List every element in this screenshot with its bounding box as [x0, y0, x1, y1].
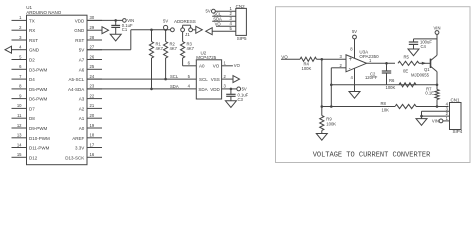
- jumper J1 pin A: [171, 28, 175, 32]
- wire Q1 collector to R7: [436, 72, 438, 90]
- svg-text:8: 8: [350, 46, 353, 51]
- jumper J1 shunt bracket: [182, 25, 184, 28]
- svg-text:R5: R5: [404, 55, 410, 60]
- jumper J1 pin B: [181, 28, 185, 32]
- ground below op-amp: [349, 92, 360, 99]
- svg-text:24: 24: [90, 74, 95, 79]
- U1 right pin 22 (A3): [87, 98, 102, 100]
- U1 left pin 11 (D8): [12, 117, 27, 119]
- svg-text:D7: D7: [29, 106, 35, 111]
- svg-text:Q1: Q1: [424, 67, 430, 72]
- svg-text:22: 22: [90, 93, 95, 98]
- node VDD/C3 junction: [230, 88, 233, 91]
- svg-text:19: 19: [90, 123, 95, 128]
- svg-text:4K7: 4K7: [170, 46, 178, 51]
- svg-text:CN1: CN1: [451, 98, 460, 103]
- svg-text:120PF: 120PF: [365, 75, 378, 80]
- node R6/collector junction: [436, 84, 439, 87]
- svg-text:VIN: VIN: [432, 119, 439, 124]
- svg-text:100K: 100K: [326, 121, 336, 126]
- U1 left pin 7 (D4): [12, 78, 27, 80]
- svg-text:D11-PWM: D11-PWM: [29, 146, 50, 151]
- svg-text:A7: A7: [79, 58, 85, 63]
- U1 right pin 23 (A4-SDA): [87, 88, 102, 90]
- resistor R8 10K: [395, 104, 416, 108]
- resistor R7 0.1E: [435, 90, 439, 100]
- svg-text:A2: A2: [79, 106, 85, 111]
- svg-text:2: 2: [224, 74, 227, 79]
- voltage-to-current converter enclosure box: [276, 7, 471, 163]
- svg-text:TX: TX: [29, 18, 35, 23]
- U3A pin 4 wire to ground: [354, 68, 356, 91]
- svg-text:A3: A3: [79, 97, 85, 102]
- svg-text:D2: D2: [29, 58, 35, 63]
- svg-text:D10-PWM: D10-PWM: [29, 136, 50, 141]
- node R2/SCL junction: [164, 78, 167, 81]
- terminal 5V above op-amp: [353, 35, 357, 39]
- svg-text:2: 2: [19, 25, 22, 30]
- U1 right pin 16 (D13-SCK): [87, 156, 102, 158]
- op-amp U3A OPA2350: [346, 55, 367, 72]
- wire SCL (U1 pin 24 to U2 pin 5): [87, 78, 196, 80]
- wire 5V rail: [87, 49, 131, 51]
- svg-text:10K: 10K: [382, 107, 390, 112]
- U1 left pin 4 (GND): [12, 49, 27, 51]
- resistor R2 4K7: [165, 30, 167, 42]
- svg-text:4K7: 4K7: [156, 46, 164, 51]
- U2 pin 2 VSS: [222, 78, 233, 80]
- wire R9 to ground: [321, 131, 323, 134]
- svg-text:VO: VO: [234, 63, 241, 68]
- svg-text:5V: 5V: [242, 87, 247, 92]
- node CN1 ground junction: [420, 115, 423, 118]
- svg-text:4: 4: [19, 45, 22, 50]
- svg-text:VIN: VIN: [434, 26, 441, 31]
- svg-text:D9-PWM: D9-PWM: [29, 126, 47, 131]
- ground arrow at U2 VSS: [233, 76, 240, 83]
- U1 left pin 8 (D5-PWM): [12, 88, 27, 90]
- svg-text:10: 10: [17, 103, 22, 108]
- node R1 tap: [150, 29, 153, 32]
- ground arrow to CN2 pin 5: [206, 28, 213, 35]
- resistor R4 100K: [300, 57, 317, 61]
- svg-text:11: 11: [17, 113, 22, 118]
- svg-text:3: 3: [19, 35, 22, 40]
- svg-text:VDD: VDD: [210, 87, 220, 92]
- svg-text:27: 27: [90, 45, 95, 50]
- svg-text:3: 3: [224, 84, 227, 89]
- wire feedback row: [331, 84, 437, 86]
- terminal 5V on rail: [164, 25, 168, 29]
- ground arrow right of J1: [196, 26, 203, 33]
- svg-text:1: 1: [224, 61, 227, 66]
- U3A pin 2 wire (-in): [331, 67, 346, 69]
- U1 left pin 1 (TX): [12, 19, 27, 21]
- node R1/SDA junction: [150, 88, 153, 91]
- node R4/R9 junction: [321, 58, 324, 61]
- connector CN1 body: [450, 103, 462, 130]
- svg-text:5V: 5V: [79, 48, 85, 53]
- svg-text:4: 4: [350, 75, 353, 80]
- svg-text:VOLTAGE TO CURRENT CONVERTER: VOLTAGE TO CURRENT CONVERTER: [313, 151, 431, 159]
- svg-text:6: 6: [19, 64, 22, 69]
- svg-text:17: 17: [90, 142, 95, 147]
- U1 left pin 10 (D7): [12, 107, 27, 109]
- svg-text:16: 16: [90, 152, 95, 157]
- terminal 5V at U2 VDD: [237, 87, 241, 91]
- svg-text:VSS: VSS: [211, 77, 220, 82]
- svg-text:28: 28: [90, 35, 95, 40]
- svg-text:14: 14: [17, 142, 22, 147]
- CN1 pin 2 wire: [422, 115, 450, 117]
- wire VDD to VIN node: [87, 19, 123, 21]
- U1 left pin 3 (RST): [12, 39, 27, 41]
- svg-text:20: 20: [90, 113, 95, 118]
- svg-text:D13-SCK: D13-SCK: [65, 155, 84, 160]
- svg-text:29: 29: [90, 25, 95, 30]
- svg-text:A5-SCL: A5-SCL: [69, 77, 85, 82]
- svg-text:J1: J1: [185, 32, 190, 37]
- U1 right pin 27 (5V): [87, 49, 102, 51]
- ground below C4: [408, 49, 419, 56]
- svg-text:25: 25: [90, 64, 95, 69]
- svg-text:A1: A1: [79, 116, 85, 121]
- svg-text:A6: A6: [79, 67, 85, 72]
- wire R8 row left: [322, 106, 395, 108]
- svg-text:13: 13: [17, 133, 22, 138]
- CN1 pin 3 wire: [422, 110, 450, 112]
- svg-text:5: 5: [188, 74, 191, 79]
- svg-text:100K: 100K: [302, 66, 312, 71]
- jumper J1 pin C: [189, 28, 193, 32]
- svg-text:0.1E: 0.1E: [425, 91, 434, 96]
- svg-text:D8: D8: [29, 116, 35, 121]
- IC U1 ARDUINO NANO body: [27, 15, 88, 165]
- svg-text:D12: D12: [29, 155, 38, 160]
- svg-text:R8: R8: [381, 101, 387, 106]
- connector CN2 body: [236, 8, 247, 35]
- node output/C2 junction: [385, 62, 388, 65]
- ground below R9: [316, 134, 327, 141]
- resistor R6 100K: [399, 83, 416, 87]
- svg-text:GND: GND: [74, 28, 85, 33]
- node R9 junction: [321, 105, 324, 108]
- resistor R9 100K: [320, 116, 324, 131]
- U1 right pin 28 (RST): [87, 39, 102, 41]
- svg-text:9: 9: [19, 93, 22, 98]
- U1 right pin 24 (A5-SCL): [87, 78, 102, 80]
- wire R4 junction to R9: [321, 59, 323, 115]
- svg-text:R6: R6: [389, 78, 395, 83]
- svg-text:A0: A0: [79, 126, 85, 131]
- svg-text:VDD: VDD: [75, 18, 85, 23]
- svg-text:MCP4725: MCP4725: [196, 55, 217, 60]
- wire R2 to SCL: [165, 58, 167, 79]
- U2 pin 3 VDD: [222, 88, 237, 90]
- svg-text:21: 21: [90, 103, 95, 108]
- svg-text:RX: RX: [29, 28, 35, 33]
- svg-text:5: 5: [229, 26, 232, 31]
- U1 left pin 6 (D3-PWM): [12, 68, 27, 70]
- U1 left pin 2 (RX): [12, 29, 27, 31]
- wire R8 to CN1 pin 4: [416, 106, 449, 108]
- wire J1 to ground arrow: [193, 29, 196, 31]
- terminal VIN top: [435, 31, 439, 35]
- svg-text:2: 2: [339, 63, 342, 68]
- U1 right pin 25 (A6): [87, 68, 102, 70]
- U1 left pin 13 (D10-PWM): [12, 137, 27, 139]
- svg-text:SIP4: SIP4: [453, 129, 463, 134]
- resistor R3 4K7: [182, 32, 184, 42]
- svg-text:15: 15: [17, 152, 22, 157]
- svg-text:C4: C4: [421, 44, 427, 49]
- svg-text:5: 5: [19, 54, 22, 59]
- svg-text:ADDRESS: ADDRESS: [174, 19, 196, 24]
- ground below C3: [225, 101, 236, 108]
- svg-text:12: 12: [17, 123, 22, 128]
- svg-text:5V: 5V: [206, 9, 211, 14]
- U1 right pin 26 (A7): [87, 59, 102, 61]
- U1 right pin 18 (AREF): [87, 137, 102, 139]
- resistor R1 4K7: [151, 30, 153, 42]
- U3A output pin 1 wire: [367, 62, 396, 64]
- transistor Q1 MJD0655: [430, 59, 432, 68]
- wire R7 to R8 row: [436, 100, 438, 107]
- capacitor C2 120PF: [386, 63, 388, 71]
- U1 left pin 12 (D9-PWM): [12, 127, 27, 129]
- ground below C1: [110, 34, 121, 41]
- svg-text:SIP5: SIP5: [237, 36, 247, 41]
- svg-text:5V: 5V: [163, 19, 168, 24]
- svg-text:100K: 100K: [386, 85, 396, 90]
- svg-text:D4: D4: [29, 77, 35, 82]
- node R2/5V tap: [164, 29, 167, 32]
- wire R5 to Q1 base: [419, 62, 431, 64]
- svg-text:0E: 0E: [403, 68, 408, 73]
- IC U2 body: [196, 60, 221, 99]
- svg-text:1: 1: [19, 15, 22, 20]
- wire R3 to U2 A0: [182, 58, 184, 66]
- svg-text:-: -: [349, 66, 351, 72]
- svg-text:SCL: SCL: [170, 74, 179, 79]
- svg-text:C3: C3: [238, 97, 244, 102]
- U1 left pin 5 (D2): [12, 59, 27, 61]
- node VDD/C1 junction: [114, 19, 117, 22]
- node R7/R8 junction: [436, 105, 439, 108]
- U1 right pin 29 (GND): [87, 29, 102, 31]
- wire R4 to op-amp +in: [317, 58, 347, 60]
- CN2 pin 5 wire GND: [212, 30, 236, 32]
- ground arrow at U1 pin 4: [5, 46, 12, 53]
- svg-text:C1: C1: [122, 27, 128, 32]
- U1 right pin 19 (A0): [87, 127, 102, 129]
- capacitor C3 0.1uF: [230, 89, 232, 94]
- svg-text:3.3V: 3.3V: [75, 146, 84, 151]
- U1 right pin 17 (3.3V): [87, 147, 102, 149]
- svg-text:GND: GND: [29, 48, 40, 53]
- svg-text:3: 3: [339, 54, 342, 59]
- U1 left pin 15 (D12): [12, 156, 27, 158]
- capacitor C4 100uF: [413, 39, 415, 42]
- svg-text:SCL: SCL: [199, 77, 208, 82]
- CN1 pin 1 wire VIN: [439, 119, 443, 123]
- svg-text:26: 26: [90, 54, 95, 59]
- U1 left pin 9 (D6-PWM): [12, 98, 27, 100]
- svg-text:7: 7: [19, 74, 22, 79]
- svg-text:RST: RST: [75, 38, 84, 43]
- node -in/R8 junction: [330, 105, 333, 108]
- U1 right pin 30 (VDD): [87, 19, 102, 21]
- terminal VIN (U1 supply): [123, 19, 127, 23]
- svg-text:5V: 5V: [352, 29, 357, 34]
- wire R1 to SDA: [151, 58, 153, 89]
- svg-text:6: 6: [188, 61, 191, 66]
- svg-text:ARDUINO NANO: ARDUINO NANO: [26, 10, 62, 15]
- svg-text:A0: A0: [199, 64, 205, 69]
- U2 pin 1 VO: [222, 65, 233, 67]
- svg-text:18: 18: [90, 133, 95, 138]
- svg-text:30: 30: [90, 15, 95, 20]
- svg-text:AREF: AREF: [72, 136, 84, 141]
- svg-text:SDA: SDA: [170, 84, 179, 89]
- svg-text:4: 4: [188, 84, 191, 89]
- svg-text:D5-PWM: D5-PWM: [29, 87, 47, 92]
- U1 right pin 20 (A1): [87, 117, 102, 119]
- wire SDA (U1 pin 23 to U2 pin 4): [87, 88, 196, 90]
- svg-text:MJD0655: MJD0655: [411, 72, 430, 77]
- U1 left pin 14 (D11-PWM): [12, 147, 27, 149]
- wire VO to R4: [281, 58, 300, 60]
- svg-text:D6-PWM: D6-PWM: [29, 97, 47, 102]
- svg-text:A4-SDA: A4-SDA: [68, 87, 84, 92]
- U1 right pin 21 (A2): [87, 107, 102, 109]
- svg-text:8: 8: [19, 84, 22, 89]
- U3A pin 8 wire to 5V: [354, 39, 356, 58]
- svg-text:VO: VO: [213, 64, 220, 69]
- svg-text:23: 23: [90, 84, 95, 89]
- svg-text:D3-PWM: D3-PWM: [29, 67, 47, 72]
- svg-text:SDA: SDA: [198, 87, 207, 92]
- svg-text:+: +: [349, 57, 353, 63]
- svg-text:RST: RST: [29, 38, 38, 43]
- resistor R5 0E: [398, 61, 419, 65]
- svg-text:U1: U1: [26, 5, 32, 10]
- node -in/feedback junction: [330, 84, 333, 87]
- capacitor C1 0.1uF: [115, 20, 117, 25]
- svg-text:4K7: 4K7: [187, 46, 195, 51]
- ground below CN1 pins: [421, 116, 423, 119]
- svg-text:1: 1: [446, 116, 449, 121]
- wire Q1 emitter to VIN: [436, 34, 438, 55]
- ground arrow at U1 pin 29: [102, 27, 109, 34]
